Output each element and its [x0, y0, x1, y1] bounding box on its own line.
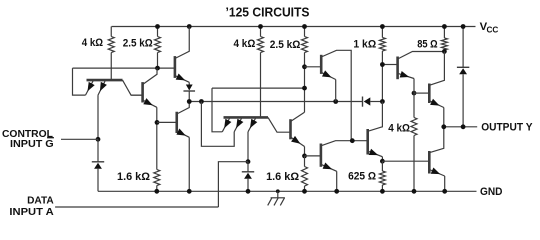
svg-text:1 kΩ: 1 kΩ	[353, 39, 376, 51]
svg-text:OUTPUT Y: OUTPUT Y	[481, 122, 533, 134]
svg-text:2.5 kΩ: 2.5 kΩ	[270, 39, 301, 51]
svg-text:625 Ω: 625 Ω	[348, 171, 376, 183]
svg-text:DATA: DATA	[27, 196, 54, 207]
svg-text:4 kΩ: 4 kΩ	[388, 123, 410, 135]
svg-text:1.6 kΩ: 1.6 kΩ	[117, 171, 150, 183]
svg-text:INPUT G: INPUT G	[10, 139, 54, 150]
svg-text:2.5 kΩ: 2.5 kΩ	[123, 38, 153, 50]
svg-text:’125 CIRCUITS: ’125 CIRCUITS	[226, 5, 310, 20]
svg-text:4 kΩ: 4 kΩ	[82, 37, 103, 49]
svg-text:1.6 kΩ: 1.6 kΩ	[266, 171, 299, 183]
svg-text:4 kΩ: 4 kΩ	[234, 38, 256, 50]
svg-text:GND: GND	[480, 186, 503, 198]
svg-text:INPUT A: INPUT A	[9, 207, 54, 218]
svg-text:CC: CC	[487, 26, 499, 35]
svg-text:85 Ω: 85 Ω	[417, 39, 438, 51]
